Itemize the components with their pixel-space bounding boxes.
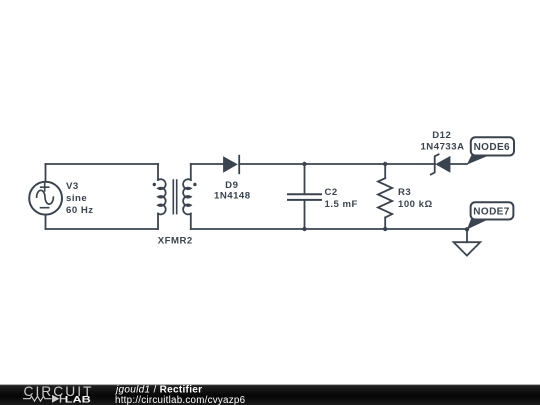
transformer secondary polarity dot xyxy=(193,183,196,186)
ground symbol xyxy=(454,242,481,255)
transformer XFMR2 secondary winding xyxy=(183,179,191,214)
logo diode xyxy=(52,395,61,403)
svg-text:C2: C2 xyxy=(325,187,338,198)
transformer XFMR2 secondary vertical stubs xyxy=(190,164,192,180)
svg-text:D12: D12 xyxy=(432,130,451,141)
svg-text:60 Hz: 60 Hz xyxy=(66,205,94,216)
wire secondary top (to diode D9) xyxy=(191,163,223,165)
svg-text:1.5 mF: 1.5 mF xyxy=(325,199,358,210)
wire V3 bottom stub xyxy=(45,215,47,229)
wire top-left (V3 to XFMR2 primary) xyxy=(46,163,159,165)
label D9 xyxy=(214,180,251,202)
zener D12 body xyxy=(435,156,450,173)
transformer primary polarity dot xyxy=(153,183,156,186)
svg-text:XFMR2: XFMR2 xyxy=(158,236,193,247)
label D12 xyxy=(420,130,464,152)
NODE7 flag tail xyxy=(467,219,489,230)
zener D12 cathode bar xyxy=(431,154,439,174)
NODE6 flag tail xyxy=(467,155,490,165)
capacitor C2 plates xyxy=(288,194,321,200)
wire V3 top stub xyxy=(45,164,47,182)
svg-text:LAB: LAB xyxy=(65,395,91,405)
capacitor C2 bottom stub xyxy=(304,200,306,229)
diode D9 cathode bar xyxy=(238,155,240,174)
junction node R3 top xyxy=(383,162,387,166)
svg-text:1N4733A: 1N4733A xyxy=(420,141,464,152)
junction node C2 bottom xyxy=(302,227,306,231)
svg-text:sine: sine xyxy=(66,193,87,204)
NODE7 flag box xyxy=(471,202,514,219)
NODE6 flag box xyxy=(471,137,514,155)
svg-text:V3: V3 xyxy=(66,181,79,192)
wire D9 cathode to node xyxy=(239,163,435,165)
voltage source V3 xyxy=(29,182,62,215)
transformer XFMR2 primary winding xyxy=(158,179,166,214)
resistor R3 zigzag xyxy=(378,178,392,217)
svg-text:R3: R3 xyxy=(398,187,411,198)
resistor R3 bottom stub xyxy=(384,218,386,230)
ground stub xyxy=(466,229,468,242)
svg-text:1N4148: 1N4148 xyxy=(214,191,251,202)
footer bar xyxy=(0,385,540,405)
capacitor C2 top stub xyxy=(304,164,306,194)
label R3 xyxy=(398,187,433,210)
junction node R3 bottom xyxy=(383,227,387,231)
wire zener D12 to NODE6 tail xyxy=(450,163,467,165)
logo word LAB xyxy=(65,395,91,405)
svg-text:D9: D9 xyxy=(225,180,238,191)
transformer core xyxy=(173,180,176,214)
resistor R3 top stub xyxy=(384,164,386,178)
svg-text:NODE7: NODE7 xyxy=(473,206,509,217)
diode D9 body xyxy=(223,156,238,173)
junction node C2 top xyxy=(302,162,306,166)
wire bottom-left (XFMR2 primary to V3) xyxy=(46,228,159,230)
wire secondary bottom xyxy=(191,228,467,230)
svg-text:http://circuitlab.com/cvyazp6: http://circuitlab.com/cvyazp6 xyxy=(115,395,246,405)
transformer XFMR2 primary vertical stubs xyxy=(157,164,159,180)
junction node ground xyxy=(465,227,469,231)
label V3 xyxy=(66,181,94,216)
svg-text:NODE6: NODE6 xyxy=(474,142,510,153)
label C2 xyxy=(325,187,358,210)
logo resistor squiggle xyxy=(23,396,66,401)
svg-text:100 kΩ: 100 kΩ xyxy=(398,199,433,210)
